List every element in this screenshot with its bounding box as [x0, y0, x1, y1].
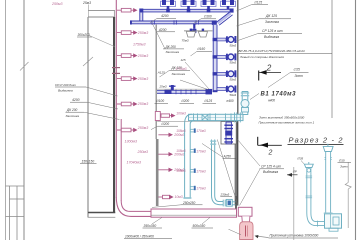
svg-text:108м3: 108м3 [176, 129, 186, 133]
branch fan 2 [217, 53, 236, 60]
sink drop stub [193, 24, 195, 29]
svg-text:∅160: ∅160 [197, 47, 205, 51]
vertical stub below left elbow [140, 13, 143, 22]
frame left inner line [23, 0, 25, 240]
supply unit tank [240, 222, 253, 240]
floor line room2 [157, 120, 236, 122]
svg-text:∅15: ∅15 [339, 158, 345, 162]
svg-text:∅200: ∅200 [181, 99, 189, 103]
section fan box [325, 214, 342, 228]
pipe A right elbow [230, 9, 234, 13]
sink drop joint [192, 29, 196, 33]
svg-text:108м3: 108м3 [176, 149, 186, 153]
band end tick [113, 11, 115, 18]
transition box to supply unit [238, 207, 252, 216]
svg-text:4200: 4200 [161, 14, 169, 18]
svg-text:350х350: 350х350 [144, 224, 157, 228]
svg-text:230м3: 230м3 [220, 193, 230, 197]
F1 branch 1 [190, 128, 196, 132]
ceiling fixture unit 1 [161, 0, 176, 9]
fan box pedestal [329, 228, 338, 231]
break mark on inner frame [20, 62, 29, 71]
long leader across room2 [217, 140, 238, 206]
svg-text:100м3: 100м3 [176, 112, 186, 116]
frame left outer line [5, 0, 7, 240]
joint square at top of riser C [212, 20, 217, 25]
svg-text:4200: 4200 [72, 98, 80, 102]
riser elbow outer [116, 197, 151, 216]
riser C joint 1 [213, 38, 218, 41]
hood box outline [221, 122, 236, 145]
svg-text:4200: 4200 [159, 28, 167, 32]
svg-text:СР 125 4 шт: СР 125 4 шт [261, 165, 281, 169]
svg-text:∅125: ∅125 [204, 99, 212, 103]
svg-text:∅200: ∅200 [161, 122, 169, 126]
section left pipe [307, 168, 311, 214]
pipe B end cap [130, 20, 132, 24]
sink 2 [198, 32, 207, 38]
svg-text:50м3: 50м3 [230, 93, 237, 97]
inner wall thin upper [155, 25, 157, 140]
room pipe D horizontal [157, 91, 211, 94]
wall supply grille arrow row 6 [117, 128, 138, 132]
wall stub near supply unit [235, 196, 237, 209]
break mark on left wall [83, 57, 93, 66]
right wall upper [237, 0, 239, 121]
section elbow [307, 213, 325, 226]
bottom wall gray line [88, 216, 115, 218]
pipe B flange ticks [152, 20, 198, 24]
svg-text:170м3: 170м3 [196, 187, 206, 191]
pipe E left elbow down [185, 114, 192, 124]
pipe D end cap [206, 89, 213, 94]
building top wall [88, 16, 115, 18]
water pipe B1 vertical drop [241, 92, 249, 115]
svg-text:∅160: ∅160 [204, 15, 212, 19]
riser C joint 2 [213, 55, 218, 58]
svg-text:250х250: 250х250 [182, 201, 195, 205]
svg-text:170м3: 170м3 [196, 169, 206, 173]
deflector ball on left pipe [307, 169, 311, 173]
svg-text:∅35: ∅35 [297, 156, 303, 160]
branch fan 4 [217, 86, 236, 93]
pipe A joint 2 [187, 9, 191, 13]
section left pipe cap [304, 164, 313, 167]
svg-text:Заслонка: Заслонка [66, 114, 80, 118]
svg-text:1750м3: 1750м3 [133, 43, 145, 47]
svg-text:10м3: 10м3 [175, 195, 183, 199]
svg-text:Зонт: Зонт [340, 164, 348, 168]
svg-text:170м3: 170м3 [196, 129, 206, 133]
svg-text:Заслонка: Заслонка [166, 50, 180, 54]
svg-text:Пристенные вытяжные зонты тип: Пристенные вытяжные зонты тип 1 [259, 121, 315, 125]
svg-text:1300м3: 1300м3 [125, 140, 137, 144]
water riser F2 [210, 140, 216, 196]
svg-text:250м3: 250м3 [137, 31, 148, 35]
tank inner marks [245, 226, 247, 237]
svg-text:1000х400 / 350х400: 1000х400 / 350х400 [125, 234, 154, 238]
revision table bottom-left [6, 186, 25, 240]
inner wall grille arrow row 3 [158, 168, 173, 172]
leader from SR text up to hood [238, 140, 261, 167]
tap 1 [190, 29, 192, 31]
svg-text:500х350: 500х350 [193, 224, 206, 228]
ceiling fixture unit 3 [201, 0, 216, 9]
svg-text:75м3: 75м3 [182, 39, 189, 43]
frame right inner line [331, 0, 333, 118]
svg-text:200м3: 200м3 [173, 153, 184, 157]
svg-text:Заслонка: Заслонка [172, 72, 186, 76]
mid room arrow with valve [160, 113, 175, 117]
svg-text:250м3: 250м3 [137, 77, 148, 81]
svg-text:В1 1740м3: В1 1740м3 [261, 92, 297, 98]
svg-text:н400: н400 [268, 99, 275, 103]
svg-text:250м3: 250м3 [51, 2, 62, 6]
svg-text:Выдвижка: Выдвижка [58, 89, 73, 93]
bottom wall dark line [88, 212, 115, 214]
svg-text:50м3: 50м3 [230, 43, 237, 47]
svg-text:2: 2 [266, 64, 272, 73]
svg-text:250м3: 250м3 [137, 150, 148, 154]
leader diagonal room1 a [185, 62, 209, 89]
svg-text:50м3: 50м3 [230, 61, 237, 65]
svg-text:ДК 200: ДК 200 [165, 45, 177, 49]
svg-text:∅100: ∅100 [156, 99, 164, 103]
leader from duct corner [229, 229, 242, 235]
leader line from 25m3 [87, 5, 89, 17]
wall duct stub tick a [112, 67, 120, 69]
leader diagonal top-left box [88, 35, 115, 47]
transition neck [242, 216, 250, 222]
inner wall grille arrow row 2 [158, 152, 173, 156]
tee symbol above pipe D [171, 85, 174, 90]
svg-text:170м3: 170м3 [196, 149, 206, 153]
branch fan 3 [217, 70, 236, 77]
counter line [184, 30, 213, 32]
long leader up [152, 24, 165, 49]
svg-text:А125: А125 [157, 70, 165, 74]
leader to wall [86, 87, 118, 96]
svg-text:∅15: ∅15 [293, 67, 300, 71]
svg-text:108м3: 108м3 [176, 169, 186, 173]
exhaust riser C vertical [213, 25, 217, 92]
wall grille box [155, 112, 160, 121]
leader from SR text down to duct [240, 169, 261, 206]
svg-text:25м3: 25м3 [159, 85, 167, 89]
svg-text:СР 125 в шт: СР 125 в шт [262, 29, 283, 33]
leader diagonal room1 b [180, 80, 208, 90]
pipe A joint 3 [207, 9, 211, 13]
wall supply grille arrow row 5 [117, 102, 138, 106]
diagonal pipe connecting A to C [218, 13, 231, 23]
section marker 2 bottom [258, 137, 282, 157]
F1 branch 4 [190, 186, 196, 190]
right pipe flange ticks [325, 158, 332, 160]
svg-text:А250: А250 [223, 154, 232, 158]
section right pipe cap [323, 146, 333, 151]
svg-text:∅Р: ∅Р [293, 170, 297, 174]
pipe D ticks [176, 90, 191, 95]
section detail: dimension line right with break [347, 162, 349, 182]
left pipe flange ticks [306, 176, 313, 198]
svg-text:ВР-80-75-4,0-0-РН-0,75/1500/22: ВР-80-75-4,0-0-РН-0,75/1500/220-380-УЗ-а… [239, 49, 306, 53]
riser elbow inner [121, 201, 151, 212]
sink 1 [186, 32, 195, 38]
section marker 2 top [259, 64, 281, 81]
svg-text:ДК 200: ДК 200 [66, 108, 78, 112]
shelf line room1 [156, 88, 213, 90]
hood inner pipe [226, 122, 231, 144]
svg-text:125: 125 [181, 58, 186, 62]
leader with arrow to tank [257, 236, 269, 237]
svg-text:250м3: 250м3 [137, 54, 148, 58]
svg-text:150х150: 150х150 [82, 159, 95, 163]
svg-text:Выдвижка: Выдвижка [263, 170, 278, 174]
right wall lower thick [235, 121, 239, 206]
svg-text:н400: н400 [227, 99, 234, 103]
svg-text:2: 2 [268, 150, 273, 157]
F1 branch 2 [190, 149, 196, 153]
pipe A left elbow [139, 9, 143, 13]
inner wall thick lower [156, 139, 159, 206]
ceiling fixture unit 4 [221, 0, 236, 9]
svg-text:200м3: 200м3 [173, 133, 184, 137]
supply riser pink line 1 [115, 0, 117, 198]
svg-text:∅125: ∅125 [254, 0, 262, 4]
exhaust pipe A horizontal [140, 9, 234, 12]
svg-text:СР-Р 200 8шт: СР-Р 200 8шт [55, 83, 77, 87]
duct internal gray line [151, 214, 237, 216]
main interior wall [113, 17, 115, 212]
water pipe E horizontal [189, 112, 244, 122]
exhaust pipe B horizontal [131, 21, 216, 24]
svg-text:17040м3: 17040м3 [127, 161, 141, 165]
ceiling fixture unit 2 [181, 0, 196, 9]
water riser F1 [183, 124, 191, 199]
hood flange bars [224, 125, 233, 143]
inner wall grille arrow row 4 [158, 195, 173, 199]
section right pipe [326, 152, 331, 214]
svg-text:1750м3: 1750м3 [176, 67, 187, 71]
building top wall band upper line [88, 10, 115, 12]
riser C joint 3 [213, 72, 218, 75]
svg-text:Зонт: Зонт [295, 74, 304, 78]
svg-text:Левый со стороны Жасотеля: Левый со стороны Жасотеля [239, 55, 284, 59]
svg-text:25м3: 25м3 [82, 1, 91, 5]
svg-text:50м3: 50м3 [230, 78, 237, 82]
wall supply grille arrow row 1 [117, 8, 138, 12]
section detail: dimension line left [293, 167, 295, 240]
pipe A joint 1 [166, 9, 170, 13]
valve cluster before unit [223, 199, 235, 206]
svg-text:Разрез 2 - 2: Разрез 2 - 2 [289, 135, 343, 144]
frame right outer line [355, 0, 357, 240]
branch fan 1 [217, 36, 236, 43]
section detail: arrow left [287, 174, 298, 176]
svg-text:250м3: 250м3 [137, 102, 148, 106]
main duct horizontal [151, 209, 237, 217]
F2 bottom elbow [212, 195, 224, 205]
wall supply grille arrow row 2 [117, 30, 138, 34]
pipe D dark component [165, 90, 172, 94]
svg-text:Заслонка: Заслонка [265, 20, 279, 24]
wall duct stub tick b [112, 72, 120, 74]
riser C bottom cap [213, 90, 218, 92]
svg-text:Выдвижка: Выдвижка [264, 35, 279, 39]
wall supply grille arrow row 3 [117, 53, 138, 57]
wall supply grille arrow row 4 [117, 76, 138, 80]
supply riser pink line 2 [120, 119, 122, 201]
svg-text:250м3: 250м3 [137, 126, 148, 130]
tap 2 [202, 29, 204, 31]
building left wall [87, 17, 89, 218]
svg-text:ДК 125: ДК 125 [265, 14, 277, 18]
svg-text:Зонт вытяжной 350х600х1000: Зонт вытяжной 350х600х1000 [259, 115, 305, 119]
F1 branch 3 [190, 169, 196, 173]
inner wall grille arrow row 1 [158, 133, 173, 137]
